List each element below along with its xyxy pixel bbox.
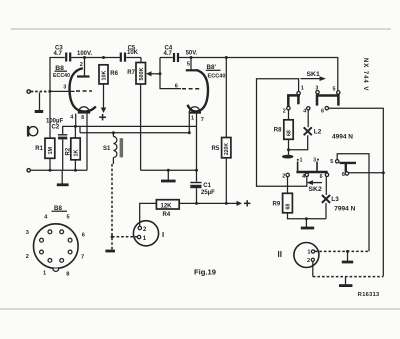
- node R1 bottom: [49, 169, 52, 172]
- svg-text:5: 5: [187, 61, 190, 67]
- svg-text:1: 1: [143, 236, 147, 242]
- node pin1 shield ground: [346, 250, 349, 253]
- ground chassis R8: [282, 155, 294, 159]
- svg-text:25µF: 25µF: [201, 190, 215, 196]
- svg-text:1K: 1K: [73, 150, 79, 157]
- node R9 ground: [305, 217, 308, 220]
- grid1 dashed electrode: [76, 90, 92, 92]
- grid2 dashed electrode: [182, 88, 201, 90]
- svg-text:10K: 10K: [101, 71, 107, 81]
- node R2 bottom: [74, 169, 77, 172]
- ground input shield: [35, 93, 44, 112]
- ground mid rail: [161, 170, 176, 181]
- svg-text:NX 744 V: NX 744 V: [362, 58, 368, 91]
- wire top rail right segment: [178, 58, 338, 91]
- node C1 top: [195, 169, 198, 172]
- svg-text:C1: C1: [203, 183, 211, 189]
- svg-text:R4: R4: [163, 212, 171, 218]
- svg-text:2: 2: [143, 227, 147, 233]
- svg-text:500K: 500K: [139, 68, 145, 81]
- svg-text:Fig.19: Fig.19: [194, 267, 216, 276]
- resistor R2: [66, 126, 81, 170]
- node grid1 junction: [49, 90, 52, 93]
- switch SK1: [283, 71, 340, 115]
- wire grid bus down to R1: [49, 91, 51, 138]
- svg-text:S1: S1: [103, 146, 111, 152]
- input terminal: [27, 90, 30, 93]
- svg-text:5: 5: [333, 86, 336, 92]
- wire R6 bottom to +: [103, 84, 105, 108]
- svg-text:68: 68: [287, 130, 293, 136]
- inductor L3: [322, 195, 330, 203]
- contact 6: [325, 173, 328, 176]
- contact 2: [286, 173, 289, 176]
- wire cathode2 pin1 lead: [188, 114, 190, 133]
- capacitor C2: [46, 119, 67, 171]
- capacitor C5: [121, 45, 139, 61]
- wire SK1 contact4 to L2: [307, 110, 309, 127]
- wire pin2 down: [312, 261, 314, 276]
- tube V1 B8 ECC40 labels: [53, 65, 70, 79]
- svg-text:SK1: SK1: [307, 71, 320, 78]
- svg-text:ECC40: ECC40: [208, 73, 226, 79]
- wire R1 bottom: [49, 158, 51, 170]
- wire bottom shield dashed: [313, 276, 384, 278]
- svg-text:50V.: 50V.: [186, 51, 198, 57]
- transformer S1: [103, 133, 123, 164]
- switch SK2: [282, 158, 356, 193]
- cathode V2: [189, 107, 201, 113]
- svg-text:1: 1: [301, 86, 304, 92]
- capacitor C1: [190, 170, 215, 203]
- svg-text:6: 6: [321, 109, 324, 115]
- ground C2: [57, 170, 69, 185]
- svg-text:R9: R9: [273, 202, 281, 208]
- microphone symbol: [27, 126, 38, 137]
- svg-text:8: 8: [81, 115, 84, 121]
- connector I: [133, 221, 164, 246]
- wire grid2 feed vertical: [160, 58, 181, 89]
- svg-text:2: 2: [283, 109, 286, 115]
- svg-text:R8: R8: [274, 128, 282, 134]
- node anode1 junction: [83, 56, 86, 59]
- svg-text:1: 1: [300, 158, 303, 164]
- wire R4 to plus: [179, 202, 237, 204]
- svg-text:2: 2: [282, 174, 285, 180]
- wire SK1 contact6 to right bus: [329, 108, 384, 276]
- contact 2: [287, 107, 290, 110]
- contact 4: [305, 173, 308, 176]
- svg-text:C2: C2: [52, 124, 60, 130]
- svg-text:7994 N: 7994 N: [334, 205, 355, 212]
- svg-text:6: 6: [175, 84, 178, 90]
- arrow down to +: [101, 108, 106, 114]
- svg-text:R1: R1: [35, 146, 43, 152]
- svg-text:3: 3: [63, 85, 66, 91]
- ground pin1 shield: [342, 251, 353, 262]
- position dot and 1: [297, 159, 299, 161]
- svg-text:4.7: 4.7: [164, 51, 173, 57]
- contact 4: [307, 107, 310, 110]
- wire L2 return: [289, 135, 308, 150]
- svg-text:L3: L3: [331, 196, 339, 203]
- socket diagram B8: [26, 205, 85, 278]
- wire SK2-5 up and right: [337, 154, 369, 252]
- svg-text:1: 1: [43, 271, 46, 277]
- inductor L2: [304, 127, 312, 135]
- node C1 bottom: [195, 202, 198, 205]
- svg-text:1: 1: [307, 250, 310, 256]
- svg-text:5: 5: [330, 159, 333, 165]
- svg-text:R6: R6: [110, 71, 118, 77]
- cathode V1: [78, 107, 90, 113]
- wire grid1: [50, 90, 75, 92]
- svg-text:6: 6: [342, 172, 345, 178]
- svg-text:220K: 220K: [224, 143, 230, 155]
- resistor R4: [156, 200, 179, 218]
- plus HT symbol: [99, 114, 106, 120]
- connector II: [278, 243, 319, 268]
- svg-text:4: 4: [44, 215, 48, 221]
- anode plate V2: [186, 69, 198, 71]
- anode plate V1: [77, 75, 90, 77]
- wire SK2-6 to L3: [325, 177, 327, 195]
- svg-text:R5: R5: [212, 146, 220, 152]
- resistor R6: [99, 65, 119, 84]
- svg-text:ECC40: ECC40: [53, 73, 70, 79]
- node R6 top junction: [102, 56, 105, 59]
- terminal ground rail: [27, 169, 30, 172]
- svg-text:8: 8: [66, 271, 69, 277]
- wire cathode2 pin7 lead down to C1 node: [196, 114, 198, 171]
- svg-text:2: 2: [307, 258, 310, 264]
- svg-text:6: 6: [320, 174, 323, 180]
- node anode2 junction: [190, 56, 193, 59]
- wire: top rail left segment (grid1 bus to C5/R7 corner): [50, 58, 65, 92]
- wire L3 bottom: [325, 203, 327, 219]
- wire SK1 contact1 feed: [257, 79, 307, 187]
- svg-text:68: 68: [286, 204, 292, 210]
- svg-text:2: 2: [80, 62, 83, 68]
- node line B end junction: [188, 131, 191, 134]
- wire SK2-6 to right bus: [349, 172, 384, 174]
- svg-text:3: 3: [26, 230, 29, 236]
- svg-text:5: 5: [67, 215, 70, 221]
- wire anode1 stem: [84, 58, 86, 76]
- node R2 top junction: [74, 125, 77, 128]
- op tube V1 envelope: [69, 68, 95, 111]
- plus symbol: [244, 200, 250, 206]
- tube V2 envelope: [187, 70, 208, 111]
- resistor R5: [212, 58, 231, 204]
- wiper wire: [150, 73, 160, 75]
- node mid ground: [167, 169, 170, 172]
- contact 6: [325, 107, 328, 110]
- svg-text:7: 7: [81, 254, 84, 260]
- wire pin1 dashed to right: [315, 250, 369, 252]
- wire anode2 stem: [190, 58, 192, 70]
- wire line B S1 bus: [80, 132, 189, 134]
- node shield to pin1: [111, 235, 114, 238]
- wire cathode1 left lead: [75, 114, 77, 127]
- svg-text:7: 7: [201, 117, 204, 123]
- page rule top: [11, 28, 391, 30]
- svg-text:II: II: [278, 250, 282, 259]
- svg-text:R16313: R16313: [358, 292, 380, 298]
- wire cathode1 right lead to ground rail: [86, 114, 88, 171]
- svg-text:4994 N: 4994 N: [332, 133, 353, 140]
- wire input dashed shielded: [31, 91, 50, 93]
- svg-text:L2: L2: [314, 128, 322, 135]
- svg-text:1M: 1M: [48, 147, 54, 155]
- resistor R1: [35, 138, 55, 158]
- arrow to plus: [237, 201, 243, 206]
- potentiometer R7: [127, 58, 161, 85]
- tube V2 B8' ECC40 labels: [206, 64, 226, 80]
- ground bottom shield: [339, 277, 352, 286]
- capacitor C4: [164, 46, 179, 63]
- wire ground rail right segment: [141, 169, 197, 171]
- node L2 return: [287, 148, 290, 151]
- wire pin2 up to R4: [140, 203, 157, 226]
- svg-text:4: 4: [302, 174, 305, 180]
- svg-text:R2: R2: [66, 147, 72, 155]
- wire ground rail left: [31, 169, 88, 171]
- capacitor C3: [54, 46, 71, 62]
- svg-text:SK2: SK2: [309, 186, 322, 193]
- node S1 top junction: [112, 131, 115, 134]
- svg-text:2: 2: [26, 254, 29, 260]
- svg-text:10K: 10K: [127, 50, 139, 56]
- svg-text:12K: 12K: [161, 203, 173, 209]
- wire jog line A to line B: [79, 126, 81, 132]
- svg-text:3: 3: [313, 158, 316, 164]
- resistor R9: [273, 177, 327, 219]
- page rule bottom: [0, 308, 400, 310]
- node R5 bottom: [225, 202, 228, 205]
- svg-text:R7: R7: [127, 70, 135, 76]
- svg-text:4.7: 4.7: [54, 51, 63, 57]
- ground S1 shield: [105, 250, 115, 253]
- svg-text:1: 1: [191, 116, 194, 122]
- node R5 top junction: [225, 56, 228, 59]
- svg-text:6: 6: [82, 232, 85, 238]
- bar stems: [297, 162, 299, 171]
- wire R7 bottom down to ground rail: [140, 84, 142, 170]
- wire line A cathode bus: [63, 126, 197, 134]
- resistor R8: [274, 110, 293, 155]
- wire C4 left stub: [160, 57, 173, 59]
- wire shield to connector I dashed: [112, 236, 137, 238]
- node right bus: [382, 171, 385, 174]
- wire S1 shield dashed: [111, 164, 113, 250]
- svg-text:4: 4: [70, 114, 74, 120]
- right section contact 6: [345, 172, 348, 175]
- ground R9: [301, 219, 314, 228]
- svg-text:I: I: [162, 230, 164, 239]
- svg-text:4: 4: [303, 108, 306, 114]
